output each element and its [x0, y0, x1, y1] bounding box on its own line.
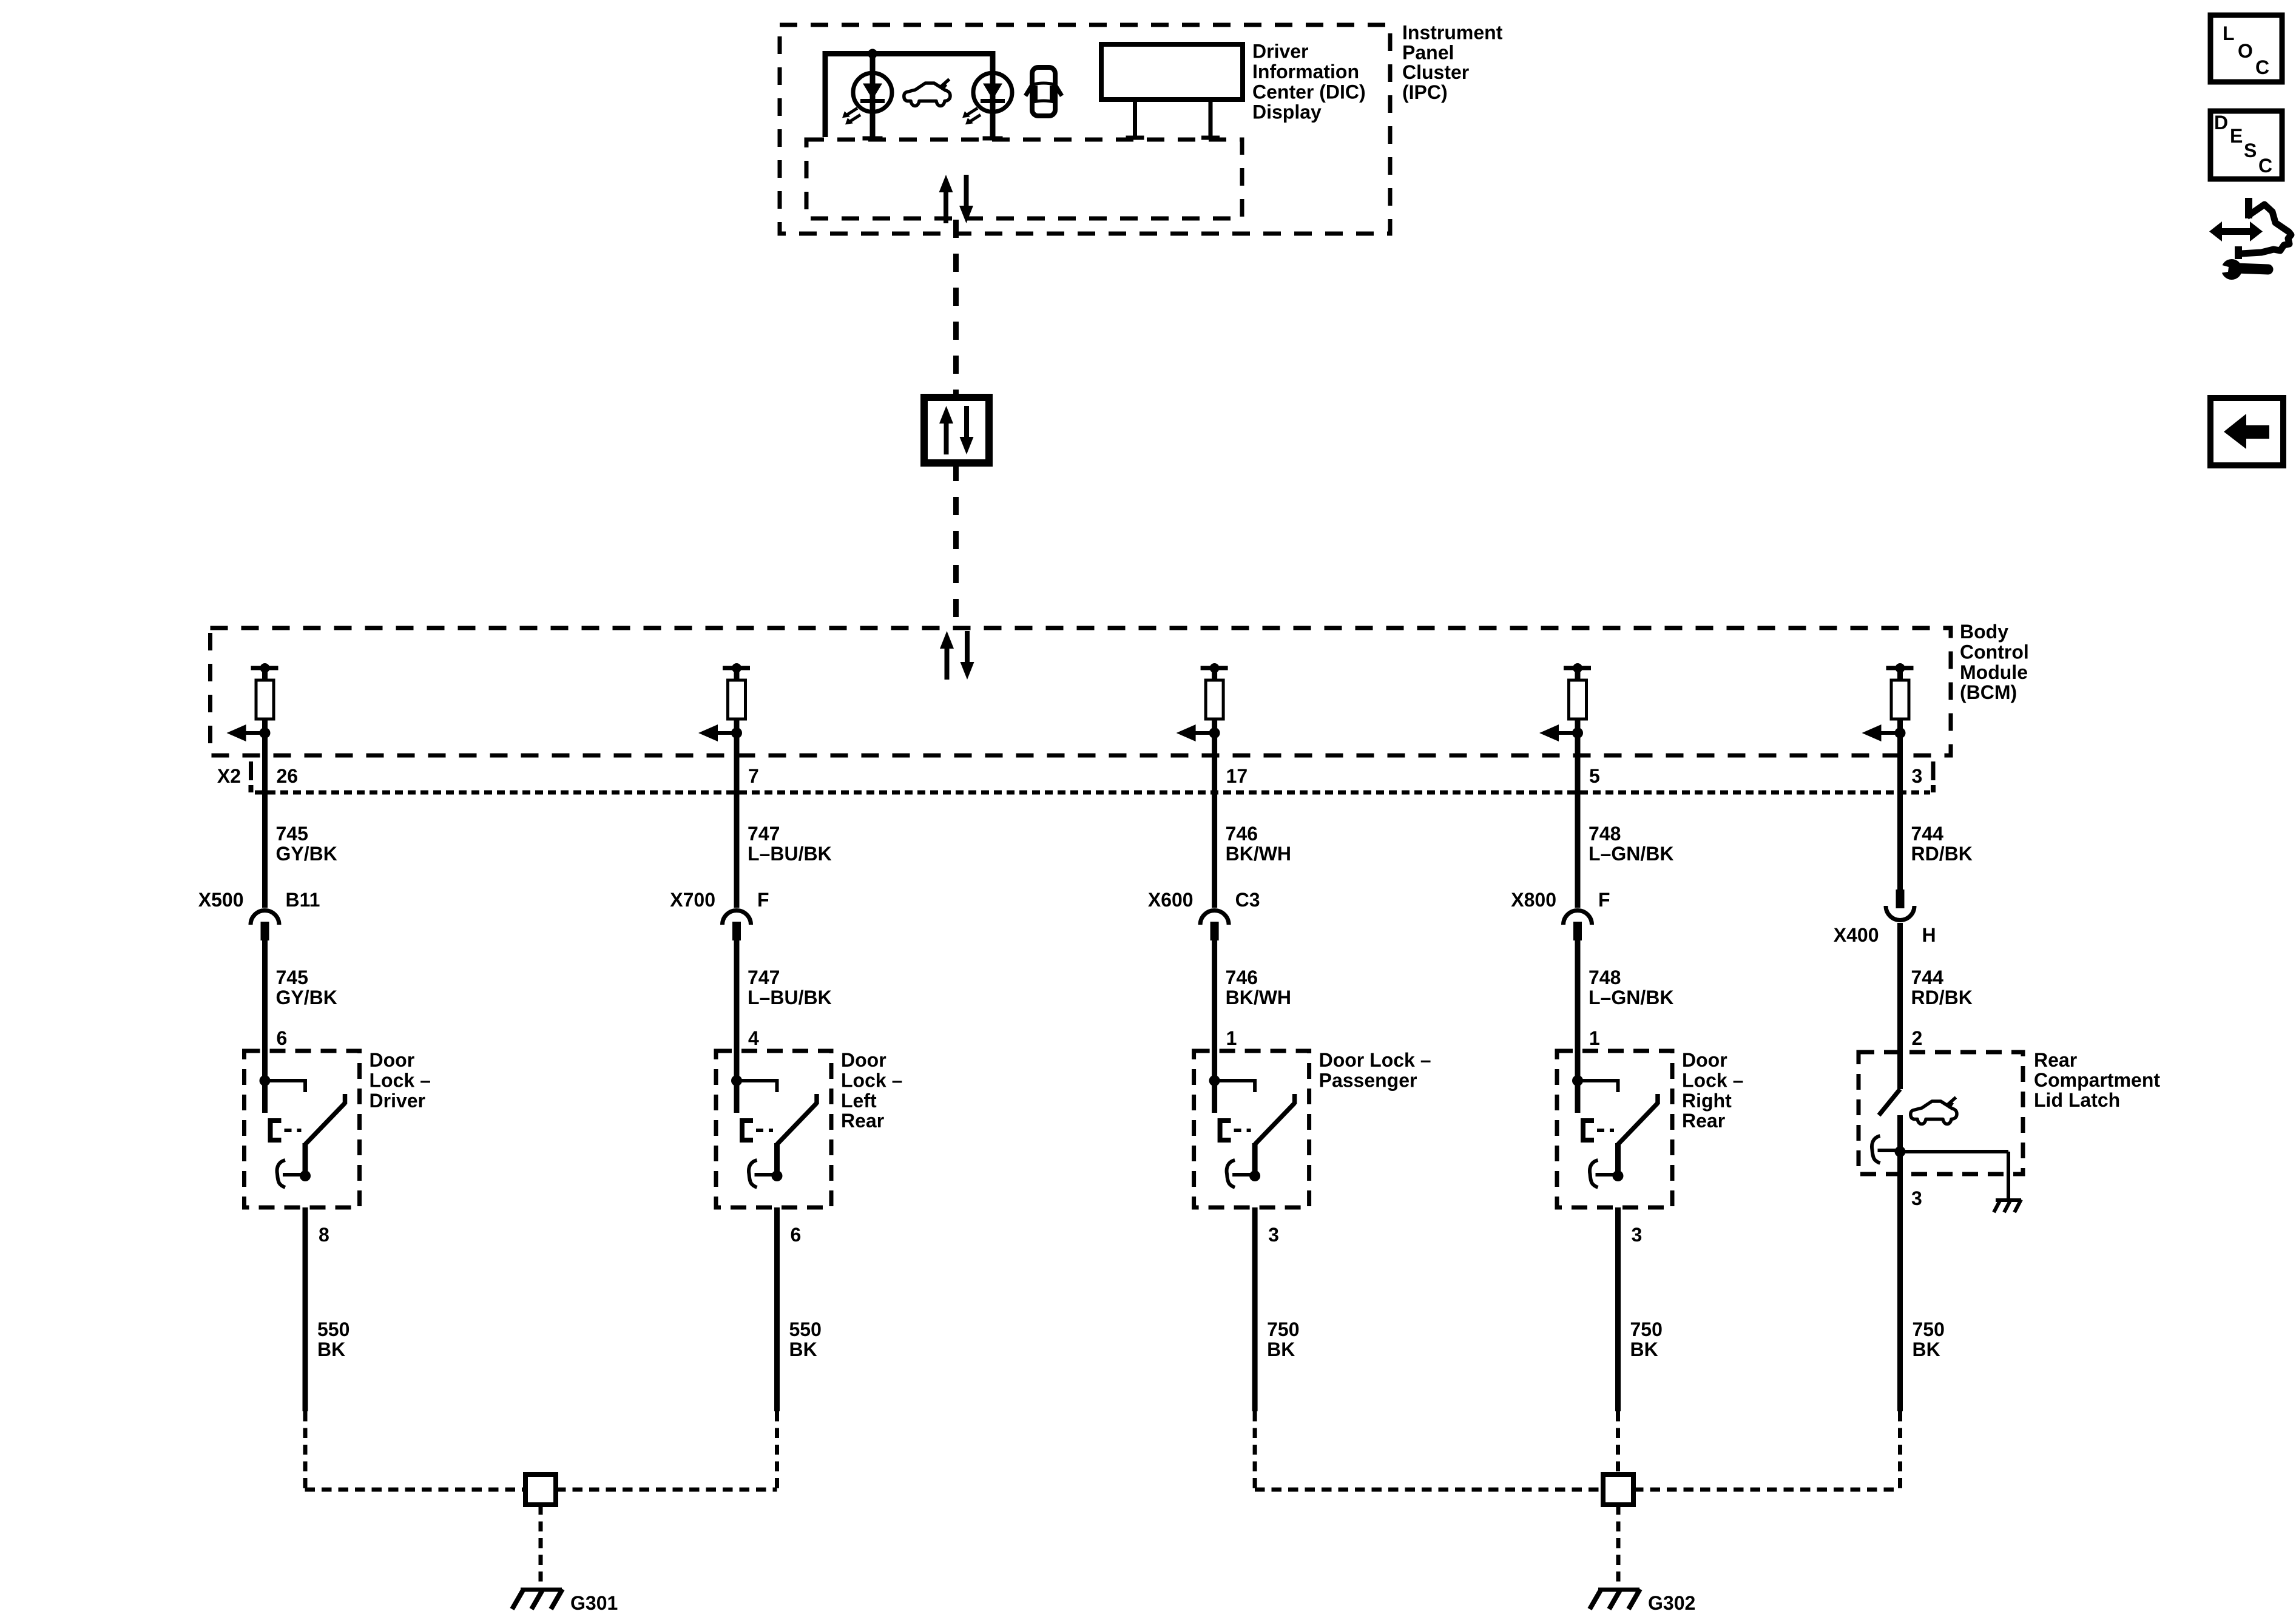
svg-text:GY/BK: GY/BK — [276, 843, 337, 865]
svg-text:BK: BK — [789, 1338, 817, 1360]
svg-text:Instrument: Instrument — [1402, 22, 1503, 44]
switch Door Lock - Passenger S3 contacts — [1209, 1075, 1295, 1187]
BCM pin resistor (column 1) — [251, 663, 279, 719]
wire 748 L–GN/BK (BCM to connector, column 4) — [1575, 719, 1581, 908]
svg-text:X600: X600 — [1148, 889, 1194, 911]
switch Door Lock - Passenger S3 dashed box — [1194, 1051, 1309, 1207]
switch Door Lock - Left Rear S2 contacts — [731, 1075, 817, 1187]
svg-text:Door Lock –: Door Lock – — [1319, 1049, 1431, 1071]
svg-text:5: 5 — [1589, 765, 1600, 787]
ground G301 — [512, 1589, 562, 1609]
svg-text:BK: BK — [1630, 1338, 1658, 1360]
icon LOC box — [2210, 15, 2282, 82]
svg-text:Compartment: Compartment — [2034, 1069, 2160, 1091]
connector X2 line (dotted) — [255, 791, 1930, 795]
splice connector at G302 — [1603, 1474, 1633, 1505]
svg-text:3: 3 — [1632, 1224, 1643, 1246]
svg-text:BK: BK — [317, 1338, 345, 1360]
BCM label — [1960, 621, 2029, 703]
switch Door Lock - Right Rear S4 contacts — [1572, 1075, 1658, 1187]
svg-text:Information: Information — [1252, 61, 1359, 83]
svg-text:Module: Module — [1960, 661, 2028, 683]
svg-text:750: 750 — [1630, 1318, 1663, 1340]
label wire 745 GY/BK (second) — [276, 967, 337, 1008]
svg-text:RD/BK: RD/BK — [1911, 843, 1973, 865]
label wire 550 BK — [317, 1318, 349, 1360]
ground symbol (lid latch internal) — [1994, 1200, 2021, 1212]
label wire 550 BK — [789, 1318, 822, 1360]
svg-text:Lock –: Lock – — [370, 1069, 431, 1091]
svg-text:BK: BK — [1913, 1338, 1940, 1360]
BCM output arrow (column 3) — [1177, 724, 1220, 741]
svg-text:Rear: Rear — [1682, 1110, 1725, 1132]
svg-text:Door: Door — [841, 1049, 886, 1071]
label wire 748 L–GN/BK — [1589, 823, 1673, 865]
connector X500 pin B11 — [251, 910, 279, 940]
label wire 745 GY/BK — [276, 823, 337, 865]
svg-text:L–GN/BK: L–GN/BK — [1589, 987, 1673, 1008]
svg-text:Lock –: Lock – — [1682, 1069, 1743, 1091]
wire 750 BK (switch to ground, column 4) — [1615, 1207, 1621, 1411]
svg-text:Left: Left — [841, 1090, 877, 1112]
ground G302 — [1590, 1589, 1640, 1609]
wire 744 RD/BK (BCM to connector, column 5) — [1897, 719, 1903, 890]
label wire 750 BK — [1913, 1318, 1945, 1360]
label wire 750 BK — [1630, 1318, 1663, 1360]
icon: car with open trunk — [904, 79, 950, 106]
BCM pin resistor (column 2) — [723, 663, 750, 719]
svg-text:X400: X400 — [1834, 924, 1879, 946]
connector X400 pin H — [1886, 890, 1914, 920]
svg-text:F: F — [1598, 889, 1610, 911]
connector X2 left tick — [249, 761, 254, 792]
svg-text:C: C — [2255, 56, 2269, 78]
BCM pin resistor (column 5) — [1886, 663, 1914, 719]
Rear Compartment Lid Latch dashed box — [1859, 1052, 2023, 1174]
svg-text:4: 4 — [748, 1027, 759, 1049]
svg-text:BK: BK — [1267, 1338, 1295, 1360]
switch Door Lock - Left Rear S2 dashed box — [716, 1051, 831, 1207]
svg-text:D: D — [2214, 112, 2228, 133]
svg-text:GY/BK: GY/BK — [276, 987, 337, 1008]
wire 744 RD/BK (connector to switch, column 5) — [1897, 923, 1903, 1089]
svg-text:S: S — [2244, 140, 2257, 161]
svg-text:3: 3 — [1911, 1187, 1922, 1209]
svg-text:Center (DIC): Center (DIC) — [1252, 81, 1366, 103]
connector X700 pin F — [723, 910, 751, 940]
svg-text:6: 6 — [791, 1224, 802, 1246]
svg-text:Cluster: Cluster — [1402, 61, 1469, 83]
connector X600 pin C3 — [1200, 910, 1229, 940]
label wire 750 BK — [1267, 1318, 1299, 1360]
svg-text:750: 750 — [1267, 1318, 1299, 1340]
svg-text:2: 2 — [1912, 1027, 1923, 1049]
svg-text:L–BU/BK: L–BU/BK — [748, 987, 832, 1008]
svg-text:RD/BK: RD/BK — [1911, 987, 1973, 1008]
label wire 746 BK/WH (second) — [1226, 967, 1291, 1008]
wire to G301 (dashed) — [539, 1505, 543, 1588]
wire 550 BK (switch to ground, column 1) — [303, 1207, 308, 1411]
label wire 748 L–GN/BK (second) — [1589, 967, 1673, 1008]
icon: car with open trunk (lid latch) — [1911, 1098, 1957, 1124]
svg-text:1: 1 — [1589, 1027, 1600, 1049]
Instrument Panel Cluster (IPC) dashed box — [780, 25, 1390, 234]
svg-text:3: 3 — [1912, 765, 1923, 787]
svg-text:G301: G301 — [570, 1592, 618, 1614]
svg-text:Body: Body — [1960, 621, 2008, 643]
svg-text:747: 747 — [748, 823, 780, 845]
LED indicator: door ajar — [962, 54, 1012, 141]
svg-text:750: 750 — [1913, 1318, 1945, 1340]
IPC label — [1402, 22, 1503, 103]
wire: LED supply bus — [825, 54, 993, 140]
svg-text:746: 746 — [1226, 967, 1258, 988]
svg-text:Right: Right — [1682, 1090, 1732, 1112]
icon: car top view with open doors — [1025, 67, 1062, 116]
svg-text:Lock –: Lock – — [841, 1069, 902, 1091]
svg-text:550: 550 — [317, 1318, 349, 1340]
svg-text:(BCM): (BCM) — [1960, 681, 2017, 703]
connector X800 pin F — [1564, 910, 1592, 940]
svg-text:Rear: Rear — [2034, 1049, 2077, 1071]
svg-text:BK/WH: BK/WH — [1226, 843, 1291, 865]
svg-text:X500: X500 — [198, 889, 244, 911]
wire 746 BK/WH (connector to switch, column 3) — [1212, 940, 1217, 1113]
svg-text:X700: X700 — [670, 889, 715, 911]
svg-text:745: 745 — [276, 823, 308, 845]
svg-text:Display: Display — [1252, 101, 1322, 123]
svg-text:744: 744 — [1911, 823, 1944, 845]
node: LED bus junction — [868, 49, 877, 59]
svg-text:X800: X800 — [1511, 889, 1556, 911]
DIC display module — [1101, 44, 1243, 140]
wire: serial data (dashed) lower — [953, 463, 959, 628]
svg-text:F: F — [757, 889, 769, 911]
svg-text:Lid Latch: Lid Latch — [2034, 1089, 2120, 1111]
svg-text:(IPC): (IPC) — [1402, 81, 1448, 103]
svg-text:745: 745 — [276, 967, 308, 988]
svg-text:26: 26 — [277, 765, 299, 787]
svg-text:1: 1 — [1226, 1027, 1237, 1049]
label wire 744 RD/BK (second) — [1911, 967, 1973, 1008]
label wire 746 BK/WH — [1226, 823, 1291, 865]
splice connector at G301 — [525, 1474, 556, 1505]
label Door Lock - Passenger S3 — [1319, 1049, 1431, 1091]
label Door Lock - Driver S1 — [370, 1049, 431, 1112]
lid latch switch contacts — [1872, 1089, 2008, 1200]
ground bus to G301 (dashed) — [305, 1488, 526, 1492]
BCM output arrow (column 5) — [1862, 724, 1906, 741]
wire 750 BK (switch to ground, column 5) — [1897, 1174, 1903, 1411]
svg-text:6: 6 — [277, 1027, 288, 1049]
BCM output arrow (column 4) — [1539, 724, 1583, 741]
switch Door Lock - Driver S1 dashed box — [245, 1051, 360, 1207]
svg-text:C: C — [2258, 155, 2272, 177]
BCM pin resistor (column 4) — [1564, 663, 1591, 719]
icon connector service (arrow + wrench) — [2209, 198, 2291, 280]
svg-text:748: 748 — [1589, 967, 1621, 988]
wire 745 GY/BK (connector to switch, column 1) — [262, 940, 268, 1113]
svg-text:E: E — [2230, 125, 2243, 147]
BCM output arrow (column 1) — [227, 724, 271, 741]
wire 550 BK (switch to ground, column 2) — [774, 1207, 780, 1411]
svg-text:747: 747 — [748, 967, 780, 988]
serial data arrows in BCM — [940, 631, 974, 680]
svg-text:Door: Door — [1682, 1049, 1727, 1071]
icon back arrow box — [2210, 398, 2283, 465]
svg-text:L: L — [2223, 22, 2235, 44]
svg-text:748: 748 — [1589, 823, 1621, 845]
wire: serial data (dashed) upper — [953, 220, 959, 397]
wire to G302 (dashed) — [1616, 1505, 1621, 1588]
wire 747 L–BU/BK (connector to switch, column 2) — [734, 940, 740, 1113]
BCM output arrow (column 2) — [698, 724, 742, 741]
svg-text:G302: G302 — [1648, 1592, 1695, 1614]
DIC inner dashed box — [806, 140, 1242, 218]
BCM pin resistor (column 3) — [1201, 663, 1228, 719]
switch Door Lock - Right Rear S4 dashed box — [1557, 1051, 1672, 1207]
svg-text:O: O — [2238, 40, 2253, 62]
svg-text:L–BU/BK: L–BU/BK — [748, 843, 832, 865]
icon DESC box — [2210, 111, 2282, 179]
svg-text:550: 550 — [789, 1318, 822, 1340]
LED indicator: door unlock — [842, 54, 892, 141]
connector X2 right tick — [1931, 761, 1936, 792]
svg-text:Panel: Panel — [1402, 41, 1454, 63]
ground bus to G302 (dashed) — [1255, 1488, 1603, 1492]
svg-text:Door: Door — [370, 1049, 415, 1071]
wire 746 BK/WH (BCM to connector, column 3) — [1212, 719, 1217, 908]
svg-text:Passenger: Passenger — [1319, 1069, 1417, 1091]
svg-text:744: 744 — [1911, 967, 1944, 988]
svg-text:17: 17 — [1226, 765, 1248, 787]
label Door Lock - Right Rear S4 — [1682, 1049, 1743, 1132]
wire 745 GY/BK (BCM to connector, column 1) — [262, 719, 268, 908]
svg-text:3: 3 — [1268, 1224, 1279, 1246]
svg-text:H: H — [1922, 924, 1936, 946]
svg-text:Driver: Driver — [370, 1090, 426, 1112]
serial data arrows in DIC — [939, 175, 974, 223]
svg-text:7: 7 — [748, 765, 759, 787]
svg-text:C3: C3 — [1235, 889, 1260, 911]
label wire 747 L–BU/BK — [748, 823, 832, 865]
svg-text:746: 746 — [1226, 823, 1258, 845]
svg-text:L–GN/BK: L–GN/BK — [1589, 843, 1673, 865]
switch Door Lock - Driver S1 contacts — [260, 1075, 345, 1187]
label Rear Compartment Lid Latch — [2034, 1049, 2160, 1111]
Body Control Module (BCM) dashed box — [211, 628, 1951, 755]
label wire 747 L–BU/BK (second) — [748, 967, 832, 1008]
label Door Lock - Left Rear S2 — [841, 1049, 902, 1132]
svg-text:Driver: Driver — [1252, 41, 1309, 62]
DIC label — [1252, 41, 1366, 123]
wire 750 BK (switch to ground, column 3) — [1252, 1207, 1258, 1411]
wire 747 L–BU/BK (BCM to connector, column 2) — [734, 719, 740, 908]
label wire 744 RD/BK — [1911, 823, 1973, 865]
svg-text:Rear: Rear — [841, 1110, 884, 1132]
svg-text:Control: Control — [1960, 641, 2029, 663]
svg-text:B11: B11 — [286, 889, 320, 911]
serial data link symbol — [924, 397, 989, 463]
svg-text:X2: X2 — [217, 765, 241, 787]
svg-text:8: 8 — [319, 1224, 329, 1246]
wire 748 L–GN/BK (connector to switch, column 4) — [1575, 940, 1581, 1113]
svg-text:BK/WH: BK/WH — [1226, 987, 1291, 1008]
